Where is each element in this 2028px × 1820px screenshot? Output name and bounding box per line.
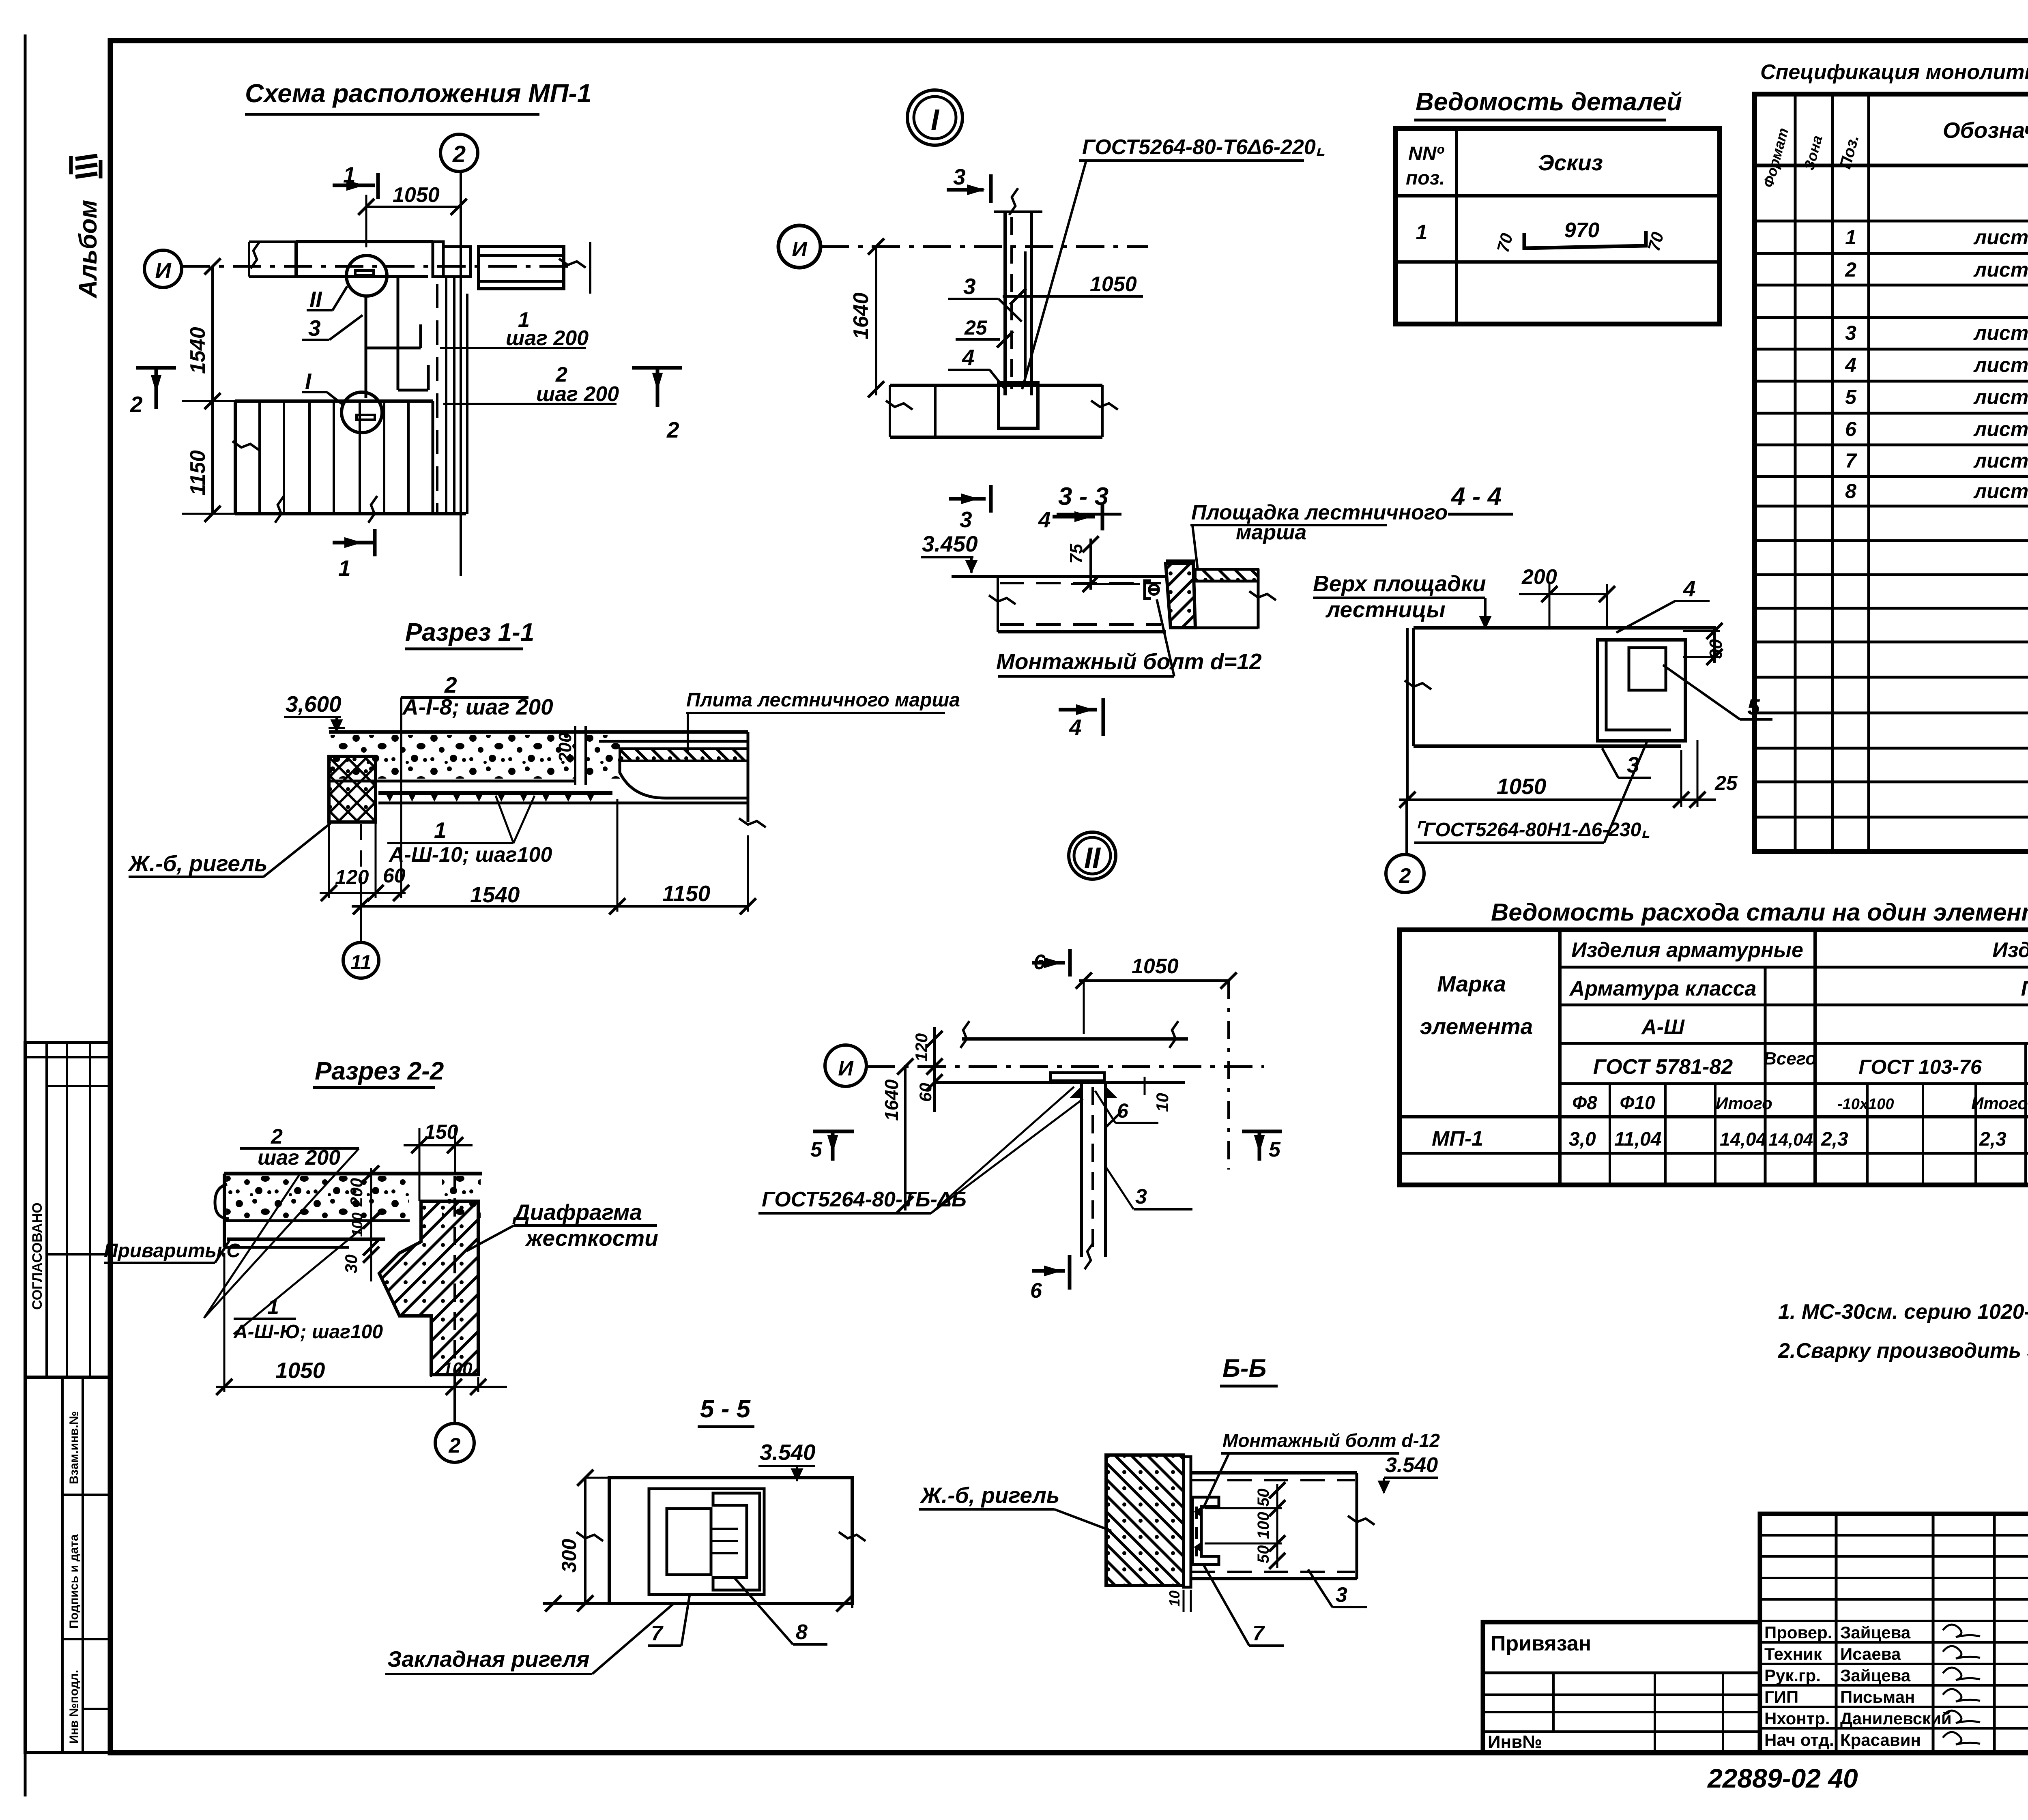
Б-Б: dims 50 100 50 [1276,1484,1278,1568]
svg-text:СОГЛАСОВАНО: СОГЛАСОВАНО [30,1202,45,1310]
svg-text:Альбом: Альбом [74,200,102,299]
svg-text:Обозначение: Обозначение [1943,118,2028,143]
svg-text:100: 100 [443,1359,473,1379]
svg-text:1640: 1640 [881,1079,902,1121]
3-3: axis И dash-dot [821,245,1148,248]
II: T-joint plate [1051,1073,1104,1081]
svg-text:Инв№: Инв№ [1488,1732,1542,1752]
detail 4-4: dim 1050 / 25 [1399,798,1716,801]
svg-text:2: 2 [444,672,457,698]
title block: central signatures table [1760,1514,2028,1753]
5-5: dim 300 [584,1478,586,1603]
4-4: slab band with dashed lines [952,575,1166,578]
svg-text:5: 5 [1845,386,1857,408]
steel consumption table [1399,930,2028,1185]
svg-text:3: 3 [963,274,976,299]
plan: stairs flight [235,399,433,403]
svg-text:5 - 5: 5 - 5 [700,1395,751,1423]
svg-text:3: 3 [953,164,966,189]
svg-text:ГОСТ 5781-82: ГОСТ 5781-82 [1593,1055,1733,1079]
svg-text:Итого: Итого [1971,1094,2028,1113]
svg-text:Нач отд.: Нач отд. [1764,1730,1834,1749]
svg-text:Арматура класса: Арматура класса [1569,977,1757,1000]
svg-text:ГОСТ5264-80-Т6Δ6-220⌞: ГОСТ5264-80-Т6Δ6-220⌞ [1082,135,1326,159]
5-5: outer square [609,1478,852,1603]
parts list table [1396,129,1720,324]
plan: weld detail circle I [342,392,382,433]
4-4: right slab with hatch strip [1195,569,1258,581]
svg-text:4: 4 [1038,507,1051,532]
3-3: floor band [890,384,1102,387]
svg-text:Верх площадки: Верх площадки [1313,571,1486,596]
section 1-1: left column (ж-б ригель) [329,756,376,822]
svg-text:Б-Б: Б-Б [1222,1354,1266,1382]
svg-text:-10х100: -10х100 [1837,1096,1894,1113]
sheet outer cut line (left) [24,34,27,1796]
svg-text:2,3: 2,3 [1979,1129,2007,1150]
plan: axis circle 2 [440,134,478,172]
svg-text:Исаева: Исаева [1840,1644,1901,1663]
svg-text:7: 7 [1252,1622,1265,1645]
II: right axis 2 dash-dot [1227,981,1230,1170]
svg-text:1: 1 [434,818,447,843]
svg-text:Зайцева: Зайцева [1840,1623,1911,1642]
section 1-1: right plita лестничного марша [599,740,748,743]
section 2-2: slab band [224,1172,482,1176]
svg-text:1540: 1540 [186,327,210,374]
svg-text:7: 7 [1845,449,1857,472]
svg-text:1640: 1640 [849,292,873,339]
svg-text:5: 5 [1269,1138,1281,1161]
svg-text:Прокат марки: Прокат марки [2021,977,2028,1000]
plan: weld detail circle II [346,255,387,296]
svg-text:3: 3 [1845,322,1856,344]
svg-text:60: 60 [916,1083,935,1102]
svg-text:1: 1 [267,1295,279,1319]
svg-text:3.540: 3.540 [1385,1453,1438,1477]
svg-text:4: 4 [962,345,975,370]
svg-text:1050: 1050 [1090,273,1137,296]
svg-text:5: 5 [810,1138,823,1161]
svg-text:1: 1 [338,556,351,581]
svg-text:шаг 200: шаг 200 [506,326,589,350]
svg-text:4 - 4: 4 - 4 [1450,483,1502,511]
svg-text:3.540: 3.540 [760,1440,816,1465]
svg-text:8: 8 [1845,480,1856,502]
svg-text:I: I [931,104,940,136]
svg-text:Ведомость расхода стали на оди: Ведомость расхода стали на один элемент,… [1491,899,2028,926]
section 2-2: axis circle 2 [435,1423,474,1462]
II: axis dash-dot [866,1065,1264,1068]
svg-text:Закладная ригеля: Закладная ригеля [387,1646,590,1672]
svg-text:3: 3 [1336,1583,1347,1607]
svg-text:970: 970 [1564,219,1600,242]
svg-text:2: 2 [1845,258,1856,281]
svg-text:Ж.-б, ригель: Ж.-б, ригель [127,851,268,876]
svg-text:Разрез 1-1: Разрез 1-1 [405,618,534,646]
svg-text:10: 10 [1153,1093,1172,1112]
title block: Привязан box [1483,1622,1760,1753]
svg-text:ПриваритькС: ПриваритькС [104,1240,241,1262]
svg-text:ГОСТ 103-76: ГОСТ 103-76 [1858,1056,1982,1078]
svg-text:лист 29: лист 29 [1973,480,2028,502]
svg-text:2: 2 [271,1125,283,1148]
II: axis И circle [825,1045,866,1086]
svg-text:2: 2 [449,1434,461,1457]
svg-text:Зайцева: Зайцева [1840,1666,1911,1685]
svg-text:II: II [309,287,322,312]
detail II marker (double circle) [1069,832,1116,879]
svg-text:Ведомость деталей: Ведомость деталей [1416,88,1682,116]
svg-text:2.Сварку производить электрода: 2.Сварку производить электродами типа Э-… [1778,1339,2028,1363]
plan: stringer strip dashed [436,284,438,514]
svg-text:Подпись и дата: Подпись и дата [67,1534,81,1629]
svg-text:4: 4 [1683,576,1696,601]
svg-text:лист 29: лист 29 [1973,258,2028,281]
section 2-2: dims 200 100 30 [370,1168,372,1281]
svg-text:75: 75 [1066,544,1086,564]
svg-text:лист 29: лист 29 [1973,449,2028,472]
svg-text:Марка: Марка [1437,971,1506,996]
plan: dim 1050 (top) [366,206,459,208]
svg-text:Ж.-б, ригель: Ж.-б, ригель [919,1483,1060,1508]
svg-text:1150: 1150 [186,450,210,496]
plan: axis circle И [144,250,182,288]
svg-text:лист 29: лист 29 [1973,226,2028,249]
Б-Б: beam with dashed lines [1191,1471,1357,1474]
svg-text:120: 120 [912,1033,931,1062]
svg-text:1150: 1150 [662,881,711,906]
detail 4-4: axis circle 2 [1386,854,1424,893]
plan: landing strip top band [296,240,433,243]
svg-text:А-Ш-Ю; шаг100: А-Ш-Ю; шаг100 [233,1321,383,1343]
Б-Б: ригель hatched block [1106,1455,1184,1586]
svg-text:6: 6 [1117,1099,1129,1122]
svg-text:Провер.: Провер. [1764,1623,1832,1642]
3-3: upright channel member [1003,212,1007,395]
svg-text:лестницы: лестницы [1325,597,1446,622]
left stamp column: СОГЛАСОВАНО box [25,1043,110,1377]
svg-text:6: 6 [1030,1279,1042,1303]
svg-text:1050: 1050 [275,1358,325,1383]
svg-text:И: И [792,238,808,261]
plan: junction box at axis 2 [443,247,470,277]
svg-text:25: 25 [964,316,988,339]
5-5: channel section [713,1493,760,1590]
svg-text:лист 29: лист 29 [1973,386,2028,408]
svg-text:И: И [838,1057,854,1080]
svg-text:25: 25 [1714,772,1738,794]
svg-text:14,04: 14,04 [1768,1130,1813,1150]
svg-text:100: 100 [349,1213,365,1237]
detail I marker (double circle) [907,90,962,145]
svg-text:жесткости: жесткости [525,1225,658,1251]
svg-text:Данилевский: Данилевский [1840,1709,1952,1728]
svg-text:Спецификация монолитной ж-б. л: Спецификация монолитной ж-б. лестничкой … [1760,60,2028,84]
svg-text:I: I [305,369,312,394]
svg-text:Изделия арматурные: Изделия арматурные [1571,938,1803,962]
svg-text:Изделия закладные: Изделия закладные [1992,938,2028,962]
svg-text:II: II [1084,842,1101,874]
svg-text:3: 3 [1135,1185,1147,1208]
svg-text:300: 300 [558,1539,580,1573]
svg-text:МП-1: МП-1 [1432,1127,1483,1150]
svg-text:2: 2 [452,141,466,167]
II: section mark 6 bottom [1032,1269,1065,1273]
plan: section mark 1 (top) [333,184,375,187]
svg-text:Ф10: Ф10 [1620,1092,1655,1113]
svg-text:1050: 1050 [1497,774,1547,799]
svg-text:И: И [155,258,172,283]
II: section marks 5 [813,1130,854,1133]
svg-text:ГИП: ГИП [1764,1687,1798,1706]
svg-text:Рук.гр.: Рук.гр. [1764,1666,1821,1685]
detail 4-4: embedded channel [1598,640,1685,741]
svg-text:150: 150 [424,1120,458,1143]
plan: axis И dash-dot line [182,265,569,268]
section 1-1: bottom rebar with studs [378,791,612,795]
svg-text:2: 2 [666,417,679,442]
5-5: bottom dim line [543,1602,844,1605]
svg-text:200: 200 [1521,565,1557,589]
svg-text:3.450: 3.450 [922,531,978,556]
plan: stepped plates below junction [365,296,367,398]
svg-text:лист 29: лист 29 [1973,418,2028,440]
svg-text:Красавин: Красавин [1840,1730,1921,1749]
svg-text:Всего: Всего [1764,1049,1816,1069]
section 2-2: leader X lines [204,1148,359,1318]
spec table [1755,94,2028,852]
plan: dim 1540 / 1150 vertical [211,266,214,514]
svg-text:6: 6 [1845,418,1857,440]
svg-text:⌜ГОСТ5264-80Н1-Δ6-230⌞: ⌜ГОСТ5264-80Н1-Δ6-230⌞ [1414,819,1650,841]
svg-text:А-I-8; шаг 200: А-I-8; шаг 200 [402,694,553,719]
svg-text:поз.: поз. [1406,167,1445,189]
svg-text:100: 100 [1255,1512,1272,1539]
svg-text:Площадка лестничного: Площадка лестничного [1191,501,1448,524]
section 1-1: dim 1540 / 1150 [352,905,748,908]
section 2-2: diaphragm hatched block [379,1201,478,1375]
svg-text:2: 2 [1399,864,1411,888]
svg-text:14,04: 14,04 [1720,1129,1766,1150]
3-3: dim 1640 [875,247,877,395]
svg-text:Плита лестничного марша: Плита лестничного марша [686,689,960,711]
svg-text:1. МС-30см. серию 1020-1/83, В: 1. МС-30см. серию 1020-1/83, Вып.7-1 100… [1778,1300,2028,1324]
svg-text:120: 120 [335,866,369,889]
plan: section mark 2 (left) [136,366,176,370]
svg-text:1050: 1050 [393,183,440,207]
plan: axis 2 vertical line [460,172,462,576]
svg-text:Нхонтр.: Нхонтр. [1764,1709,1830,1728]
plan: section mark 2 (right) [632,366,682,370]
Б-Б: inner channel with bolts [1192,1497,1219,1565]
svg-text:3,600: 3,600 [286,691,342,717]
svg-text:Эскиз: Эскиз [1538,150,1603,175]
svg-text:1050: 1050 [1132,955,1179,978]
svg-text:3: 3 [308,315,321,341]
section 1-1: slab concrete band [329,730,748,734]
4-4: dim 75 [1089,539,1092,590]
svg-text:А-Ш-10; шаг100: А-Ш-10; шаг100 [388,843,552,867]
plan: right member (channel in plan) [479,247,564,289]
3-3: axis circle И [778,225,821,268]
3-3: section mark 3 bottom [949,497,986,501]
svg-text:шаг 200: шаг 200 [536,382,619,406]
svg-text:Инв №подл.: Инв №подл. [67,1670,81,1744]
svg-text:Схема расположения МП-1: Схема расположения МП-1 [245,79,591,108]
plan: section mark 1 (bottom) [333,541,374,545]
section 1-1: axis circle 11 [343,942,379,978]
4-4: bolt symbol [1145,581,1158,599]
svg-text:7: 7 [651,1622,664,1645]
svg-text:2: 2 [130,392,143,417]
svg-text:А-Ш: А-Ш [1641,1015,1685,1039]
svg-text:NNº: NNº [1408,143,1444,165]
svg-text:22889-02 40: 22889-02 40 [1707,1763,1858,1793]
4-4: section mark 4 bottom [1059,708,1097,712]
svg-text:элемента: элемента [1420,1014,1533,1039]
svg-text:10: 10 [1166,1590,1183,1607]
Б-Б: dim 10 bottom [1183,1590,1185,1612]
svg-text:2,3: 2,3 [1821,1129,1848,1150]
svg-text:3,0: 3,0 [1569,1129,1596,1150]
detail 4-4: slab outline [1414,626,1716,630]
svg-text:11,04: 11,04 [1614,1129,1662,1150]
5-5: inner plate [649,1489,764,1595]
left stamp column: Взам.инв / Подпись / Инв№ boxes [25,1377,110,1753]
svg-text:50: 50 [1255,1489,1272,1507]
section 2-2: dim 1050 / 100 [216,1386,507,1388]
svg-text:4: 4 [1069,715,1082,740]
svg-text:8: 8 [796,1620,808,1644]
svg-text:1540: 1540 [470,882,520,907]
svg-text:4: 4 [1845,354,1856,376]
svg-text:Диафрагма: Диафрагма [512,1200,642,1225]
svg-text:30: 30 [342,1254,361,1273]
svg-text:Взам.инв.№: Взам.инв.№ [67,1411,81,1484]
section 1-1: 200 dim at slab [574,726,576,785]
svg-text:Итого: Итого [1716,1094,1772,1113]
svg-text:лист 29: лист 29 [1973,322,2028,344]
svg-text:1: 1 [1845,226,1856,249]
svg-text:11: 11 [350,951,372,974]
svg-text:Письман: Письман [1840,1687,1915,1706]
svg-text:1: 1 [1416,221,1428,244]
svg-text:50: 50 [1255,1545,1272,1564]
3-3: base plate [999,383,1038,428]
svg-text:Разрез 2-2: Разрез 2-2 [315,1057,444,1085]
svg-text:Привязан: Привязан [1491,1632,1591,1655]
detail 4-4: dim 90 [1713,626,1716,663]
svg-text:Монтажный болт d-12: Монтажный болт d-12 [1222,1430,1440,1451]
svg-text:200: 200 [555,732,575,763]
svg-text:Ф8: Ф8 [1572,1092,1597,1113]
4-4: support block hatched [1166,564,1195,628]
svg-text:Монтажный болт d=12: Монтажный болт d=12 [996,649,1262,674]
svg-text:3: 3 [960,507,972,532]
svg-text:лист 29: лист 29 [1973,354,2028,376]
II: flange band [962,1037,1188,1041]
II: dims 120 60 1640 [933,1027,936,1112]
Б-Б: vertical plate [1184,1457,1191,1587]
svg-text:Техник: Техник [1764,1644,1822,1663]
svg-text:200: 200 [347,1178,366,1207]
